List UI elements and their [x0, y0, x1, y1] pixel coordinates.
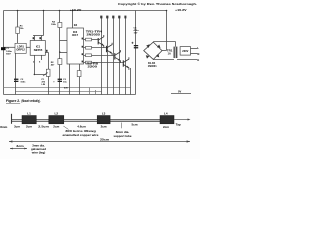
svg-text:Copyright © by Rev. Thomas Sca: Copyright © by Rev. Thomas Scarborough. — [118, 2, 197, 6]
svg-text:2.5cm: 2.5cm — [38, 124, 49, 128]
svg-text:3cm: 3cm — [14, 124, 20, 128]
svg-text:3cm: 3cm — [16, 144, 24, 148]
svg-text:N: N — [197, 52, 199, 56]
svg-text:wire (leg): wire (leg) — [31, 151, 46, 155]
svg-text:1A: 1A — [168, 52, 171, 55]
svg-text:2cm: 2cm — [101, 124, 107, 128]
svg-text:5cm: 5cm — [131, 123, 137, 127]
svg-text:2cm: 2cm — [53, 124, 59, 128]
svg-text:0V: 0V — [178, 90, 181, 94]
svg-text:E: E — [197, 58, 199, 62]
svg-text:Tap: Tap — [176, 123, 181, 127]
svg-text:100k: 100k — [51, 24, 57, 26]
svg-text:L3: L3 — [102, 112, 106, 116]
svg-text:2200: 2200 — [88, 64, 98, 68]
svg-text:16V: 16V — [134, 33, 138, 35]
svg-text:NE555: NE555 — [34, 48, 43, 52]
svg-text:4017: 4017 — [72, 33, 79, 37]
svg-text:2cm: 2cm — [26, 124, 32, 128]
svg-text:1N4001: 1N4001 — [148, 65, 158, 68]
svg-text:8mm: 8mm — [0, 125, 7, 129]
svg-text:L1: L1 — [27, 112, 31, 116]
svg-text:25cm: 25cm — [100, 137, 109, 141]
svg-text:(Mount vertically).: (Mount vertically). — [22, 99, 41, 103]
svg-text:4.6cm: 4.6cm — [77, 124, 86, 128]
svg-text:63V: 63V — [64, 88, 68, 90]
svg-text:2N3055: 2N3055 — [87, 33, 101, 37]
svg-text:+10.2V: +10.2V — [70, 8, 82, 12]
svg-text:2cm: 2cm — [163, 125, 169, 129]
svg-text:10u: 10u — [63, 81, 67, 83]
svg-text:L4: L4 — [164, 112, 168, 116]
svg-text:LIN: LIN — [42, 84, 46, 86]
svg-text:50V: 50V — [6, 53, 11, 55]
svg-text:+10.2V: +10.2V — [175, 8, 187, 12]
svg-text:Figure 2.: Figure 2. — [6, 99, 20, 103]
svg-text:100n: 100n — [20, 81, 26, 83]
svg-text:230V: 230V — [182, 49, 188, 53]
svg-text:L2: L2 — [55, 112, 59, 116]
svg-text:support tube: support tube — [114, 134, 132, 138]
svg-text:ORP12: ORP12 — [16, 48, 25, 52]
svg-text:enamelled copper wire: enamelled copper wire — [63, 133, 99, 137]
